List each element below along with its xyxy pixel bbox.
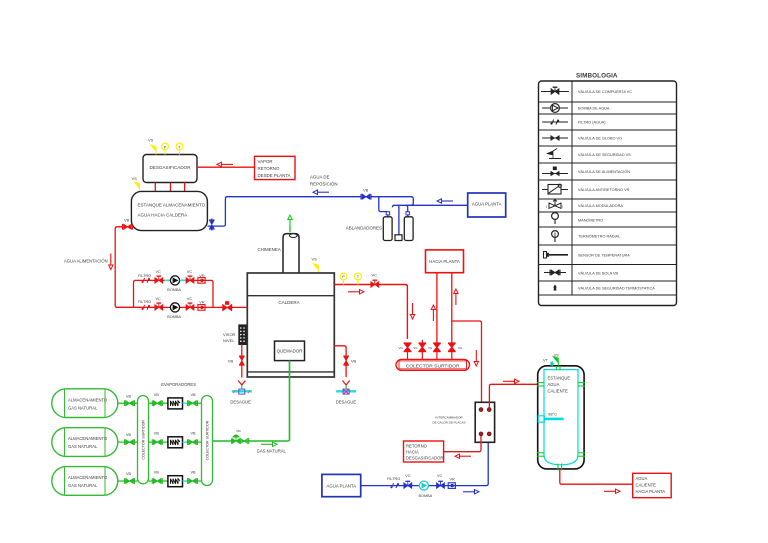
wire branch to left softener [379, 197, 388, 217]
arrow up riser4 [454, 289, 458, 305]
svg-text:VR: VR [199, 301, 205, 305]
svg-text:VS: VS [312, 256, 318, 261]
svg-text:AGUA ALIMENTACIÓN: AGUA ALIMENTACIÓN [64, 258, 108, 263]
nozzle right upper (green) [578, 383, 586, 386]
svg-text:VS: VS [148, 138, 154, 143]
vessel ESTANQUE AGUA CALIENTE outer [538, 366, 584, 469]
legend symbol row1 gate valve [541, 87, 569, 94]
svg-text:AGUA PLANTA: AGUA PLANTA [327, 484, 357, 489]
svg-text:FILTRO: FILTRO [387, 477, 400, 481]
svg-text:GAS NATURAL: GAS NATURAL [68, 405, 98, 410]
safety valve VS flag (boiler) [313, 264, 318, 274]
nozzle bottom (green ticks) [558, 464, 562, 471]
wire valve4 riser to HACIA PLANTA [451, 273, 453, 343]
vessel COLECTOR SURTIDOR (steam) [396, 359, 470, 370]
svg-text:VC: VC [187, 270, 193, 274]
svg-text:BOMBA DE AGUA: BOMBA DE AGUA [578, 107, 610, 111]
svg-text:ABLANDADORES: ABLANDADORES [346, 226, 382, 231]
vessel ESTANQUE ALMACENAMIENTO [131, 191, 207, 230]
svg-text:FILTRO (AGUA): FILTRO (AGUA) [578, 121, 606, 125]
svg-text:DE CALOR DE PLACAS: DE CALOR DE PLACAS [432, 421, 465, 425]
svg-text:VÁLVULA ANTIRETORNO VR: VÁLVULA ANTIRETORNO VR [578, 188, 630, 192]
wire gas line burner down [289, 361, 291, 441]
svg-text:VC: VC [405, 474, 411, 478]
svg-text:CALIENTE: CALIENTE [548, 388, 569, 393]
svg-text:GAS NATURAL: GAS NATURAL [68, 444, 98, 449]
wire HX condensate return [444, 436, 481, 452]
chimney CHIMENEA [283, 234, 299, 274]
gate valve VC city2 [437, 481, 445, 488]
gate valve VC lower2 [186, 303, 194, 310]
wire valve3 riser to HACIA PLANTA [436, 273, 438, 343]
wire make-up water from right into tank [208, 197, 362, 231]
svg-text:98°C: 98°C [548, 411, 557, 416]
wire valve2 stub and to collector [421, 352, 423, 360]
svg-text:GAS NATURAL: GAS NATURAL [257, 448, 287, 453]
svg-text:INTERCAMBIADOR: INTERCAMBIADOR [435, 416, 463, 420]
ball valve VB make-up (blue) [361, 194, 371, 200]
vessel gas tank 1 [52, 389, 118, 418]
nozzle right lower (green) [578, 453, 586, 456]
svg-text:ALMACENAMIENTO: ALMACENAMIENTO [68, 475, 108, 480]
legend symbol row3 filter [542, 120, 568, 125]
svg-text:VG: VG [413, 346, 418, 350]
svg-text:CALIENTE: CALIENTE [636, 483, 657, 488]
svg-text:DESGASIFICADOR: DESGASIFICADOR [406, 456, 443, 461]
wire from AGUA PLANTA to softeners [406, 204, 468, 206]
wires tanks to left collector [118, 403, 138, 481]
evaporator 3 [168, 476, 183, 487]
svg-text:VÁLVULA DE ALIMENTACIÓN: VÁLVULA DE ALIMENTACIÓN [578, 169, 630, 174]
svg-text:VG: VG [458, 346, 463, 350]
svg-text:DESAGUE: DESAGUE [230, 399, 251, 404]
heat exchanger INTERCAMBIADOR [475, 402, 494, 442]
gate valve VC lower1 [155, 303, 163, 310]
svg-text:SIMBOLOGIA: SIMBOLOGIA [576, 73, 618, 80]
svg-text:VC: VC [187, 297, 193, 301]
arrow right hot water [604, 489, 620, 493]
wire visor to drain [241, 345, 243, 378]
svg-text:VISOR: VISOR [223, 332, 236, 337]
boiler top divider [247, 295, 334, 297]
nozzle left lower (green) [537, 453, 545, 456]
svg-text:COLECTOR SURTIDOR: COLECTOR SURTIDOR [142, 420, 146, 460]
arrow left on softener feed [437, 199, 453, 203]
wire make-up to softeners loop [371, 197, 413, 206]
cyan stub evap2 [183, 441, 187, 443]
wire loop to right softener [392, 205, 407, 235]
arrow up riser3 [431, 305, 435, 321]
svg-text:GAS NATURAL: GAS NATURAL [68, 483, 98, 488]
arrow down to HX [474, 350, 478, 366]
svg-text:BOMBA: BOMBA [167, 315, 181, 319]
HX port 4 [487, 432, 491, 436]
svg-text:VM: VM [236, 429, 241, 433]
svg-text:VG: VG [428, 346, 433, 350]
arrow right steam flow [348, 290, 364, 294]
svg-text:VR: VR [450, 478, 456, 482]
svg-text:VT: VT [543, 359, 549, 363]
svg-text:TERMÓMETRO RADIAL: TERMÓMETRO RADIAL [578, 234, 620, 239]
svg-text:BOMBA: BOMBA [419, 494, 433, 498]
arrow down feed water [109, 254, 113, 270]
cyan stub evap3 [183, 480, 187, 482]
svg-text:COLECTOR SURTIDOR: COLECTOR SURTIDOR [206, 420, 210, 460]
ball valve VB left drain (red, vertical) [239, 356, 245, 365]
manometer P (steam) [340, 273, 347, 284]
legend symbol row13 thermostatic safety valve [553, 285, 557, 291]
legend symbol row12 ball valve [544, 270, 566, 276]
globe valve VG 4 on collector [448, 343, 456, 351]
feed valve (valvula de alimentacion) [223, 301, 232, 311]
arrow up flue gas (green) [288, 215, 292, 232]
wires deaerator to tank (3 risers) [155, 183, 184, 192]
inner cyan shell [544, 370, 578, 465]
globe valve VG 3 on collector [433, 343, 441, 351]
drain funnel left DESAGUE [232, 381, 252, 395]
wire cyan discharge stub (upper) [180, 279, 186, 281]
drain funnel right DESAGUE [336, 381, 356, 395]
svg-text:ESTANQUE ALMACENAMIENTO: ESTANQUE ALMACENAMIENTO [138, 202, 206, 207]
wires evaporators to right collector [187, 403, 202, 481]
svg-text:EVAPORADORES: EVAPORADORES [161, 382, 196, 387]
safety valve VS flag (hot tank, green) [553, 357, 558, 367]
filter (city) [390, 483, 399, 488]
filter (upper) [141, 278, 150, 283]
thermostatic valve VT (cyan) [551, 361, 555, 366]
wire steam return to deaerator [197, 166, 255, 168]
arrow right gas flow [261, 442, 277, 446]
svg-text:VS: VS [132, 176, 138, 181]
svg-text:VÁLVULA DE SEGURIDAD TERMOSTAT: VÁLVULA DE SEGURIDAD TERMOSTATICA [578, 287, 655, 291]
svg-text:VB: VB [363, 188, 369, 193]
arrow left condensate [455, 454, 471, 458]
svg-text:VC: VC [372, 273, 378, 278]
wire hot water to plant [560, 469, 633, 484]
svg-text:VAPOR: VAPOR [258, 159, 273, 164]
svg-text:SENSOR DE TEMPERATURA: SENSOR DE TEMPERATURA [578, 254, 630, 258]
svg-text:VB: VB [126, 433, 132, 437]
svg-text:VB: VB [126, 394, 132, 398]
legend symbol row11 temperature sensor [544, 252, 569, 259]
svg-text:VC: VC [156, 297, 162, 301]
svg-text:VB: VB [191, 393, 197, 397]
svg-text:VB: VB [228, 358, 234, 363]
temperature sensor (cyan) [538, 416, 563, 422]
svg-text:VG: VG [399, 346, 404, 350]
legend symbol row9 manometer [552, 213, 559, 224]
thermometer T (steam) [355, 273, 362, 284]
thermometer T (deaerator) [176, 143, 183, 154]
vessel softener 1 [383, 217, 392, 241]
box VAPOR RETORNO DESDE PLANTA [255, 156, 296, 179]
legend symbol row6 feed valve [542, 167, 568, 177]
arrow left on make-up line [313, 190, 329, 194]
legend symbol row8 modulating valve [546, 200, 563, 210]
svg-text:FILTRO: FILTRO [138, 274, 151, 278]
cyan stub evap1 [183, 402, 187, 404]
wire valve1 to collector [407, 352, 409, 360]
svg-text:HACIA: HACIA [406, 450, 419, 455]
svg-text:VÁLVULA MODULADORA: VÁLVULA MODULADORA [578, 204, 623, 208]
legend symbol row10 thermometer [552, 231, 559, 242]
gate valve VC city1 [404, 481, 412, 488]
svg-text:VÁLVULA DE COMPUERTA VC: VÁLVULA DE COMPUERTA VC [578, 90, 632, 94]
burner QUEMADOR [275, 341, 305, 361]
HX port 3 [479, 432, 483, 436]
gate valve VC upper1 [155, 276, 163, 283]
nozzle left upper (green) [537, 383, 545, 386]
svg-text:DESGASIFICADOR: DESGASIFICADOR [149, 165, 191, 170]
vessel COLECTOR SURTIDOR right (gas) [202, 396, 213, 486]
wire branch to heat exchanger [452, 321, 482, 407]
vessel COLECTOR SURTIDOR left (gas) [138, 396, 149, 484]
svg-text:AGUA HACIA CALDERA: AGUA HACIA CALDERA [138, 212, 188, 217]
box AGUA CALIENTE HACIA PLANTA [633, 473, 672, 497]
svg-text:BOMBA: BOMBA [167, 288, 181, 292]
box AGUA PLANTA (bottom) [322, 474, 361, 496]
pump BOMBA (lower) [170, 303, 179, 312]
svg-text:RETORNO: RETORNO [406, 444, 428, 449]
vessel gas tank 2 [52, 428, 118, 457]
svg-text:ESTANQUE: ESTANQUE [548, 375, 571, 380]
svg-text:VB: VB [154, 471, 160, 475]
vessel softener 2 [404, 217, 413, 241]
pump BOMBA (city, cyan) [419, 481, 428, 490]
fitting left softener [386, 212, 389, 215]
arrow right city water flow [463, 490, 479, 494]
safety valve VS flag (tank) [134, 182, 139, 192]
svg-text:HACIA PLANTA: HACIA PLANTA [429, 259, 460, 264]
legend outer border [539, 81, 677, 306]
svg-text:QUEMADOR: QUEMADOR [277, 349, 303, 354]
legend symbol row5 safety valve flag [547, 149, 561, 159]
check valve VR upper [198, 278, 205, 284]
svg-text:HACIA PLANTA: HACIA PLANTA [636, 489, 666, 494]
svg-text:VÁLVULA DE BOLA VB: VÁLVULA DE BOLA VB [578, 272, 618, 276]
boiler bottom band [247, 371, 334, 373]
vessel brine tank [395, 235, 402, 241]
HX port 2 [487, 408, 491, 412]
svg-text:AGUA PLANTA: AGUA PLANTA [472, 201, 502, 206]
svg-text:DESAGUE: DESAGUE [336, 399, 357, 404]
svg-text:AGUA: AGUA [548, 382, 560, 387]
legend texts [578, 90, 655, 291]
arrow right to tank [503, 379, 519, 383]
ball valve VB tank outlet (red) [123, 224, 133, 230]
HX port 1 [479, 408, 483, 412]
wire upper branch [134, 280, 214, 307]
svg-text:REPOSICIÓN: REPOSICIÓN [310, 181, 338, 186]
svg-text:MANÓMETRO: MANÓMETRO [578, 218, 603, 223]
manometer P (deaerator) [162, 143, 169, 154]
svg-text:NIVEL: NIVEL [223, 338, 235, 343]
svg-text:AGUA: AGUA [636, 476, 648, 481]
vessel DESGASIFICADOR [143, 155, 197, 183]
svg-text:AGUA DE: AGUA DE [310, 174, 330, 179]
svg-text:I: I [562, 205, 563, 209]
nozzle top (green ticks into tank) [556, 366, 560, 371]
legend column divider [571, 81, 573, 295]
level glass VISOR NIVEL [239, 325, 246, 345]
arrow down into valve1 [410, 303, 414, 319]
vessel gas tank 3 [52, 467, 118, 496]
gate valve VC steam [371, 280, 379, 287]
wire HX hot out to tank [489, 384, 539, 407]
wire boiler right blowdown [334, 346, 346, 377]
svg-text:VB: VB [351, 358, 357, 363]
gate valve VC upper2 [186, 276, 194, 283]
box RETORNO HACIA DESGASIFICADOR [404, 441, 444, 462]
modulating gas valve assembly [232, 435, 249, 444]
wire lower feed header [116, 306, 248, 308]
svg-text:VB: VB [191, 432, 197, 436]
svg-text:ALMACENAMIENTO: ALMACENAMIENTO [68, 436, 108, 441]
svg-text:VB: VB [154, 432, 160, 436]
legend symbol row7 check valve VR [542, 184, 568, 194]
svg-text:VC: VC [437, 474, 443, 478]
arrow left on steam return [217, 162, 233, 166]
svg-text:ALMACENAMIENTO: ALMACENAMIENTO [68, 397, 108, 402]
box HACIA PLANTA [426, 250, 464, 273]
svg-text:RETORNO: RETORNO [258, 166, 280, 171]
wire tank outlet down to feed header [115, 227, 142, 308]
svg-text:VB: VB [124, 218, 130, 223]
boiler CALDERA body [247, 273, 334, 377]
legend row lines [539, 102, 677, 295]
svg-text:I: I [546, 205, 547, 209]
svg-text:DESDE PLANTA: DESDE PLANTA [258, 173, 291, 178]
wires left collector to evaporators [149, 403, 168, 481]
svg-text:CHIMENEA: CHIMENEA [258, 247, 281, 252]
legend symbol row2 pump [542, 104, 568, 113]
svg-text:VÁLVULA DE GLOBO VG: VÁLVULA DE GLOBO VG [578, 137, 622, 141]
ball valve VB right drain (red, vertical) [343, 356, 349, 365]
evaporator 2 [168, 437, 183, 448]
wire city water to HX [361, 436, 489, 486]
svg-text:COLECTOR SURTIDOR: COLECTOR SURTIDOR [406, 364, 460, 370]
ball valve VB tank right (blue) [209, 220, 215, 229]
check valve VR lower [198, 305, 205, 311]
pump BOMBA (upper) [170, 276, 179, 285]
svg-text:VB: VB [126, 472, 132, 476]
evaporator 1 [168, 398, 183, 409]
wire gas supply to burner [213, 361, 290, 441]
globe valve VG 1 on collector [404, 343, 412, 351]
svg-text:VÁLVULA DE SEGURIDAD VS: VÁLVULA DE SEGURIDAD VS [578, 153, 631, 157]
globe valve VG 2 on collector [419, 343, 427, 351]
box AGUA PLANTA (top) [468, 193, 506, 217]
svg-text:VB: VB [154, 393, 160, 397]
legend symbol row4 globe valve [542, 135, 568, 141]
svg-text:VC: VC [156, 270, 162, 274]
svg-text:FILTRO: FILTRO [138, 300, 151, 304]
svg-text:CALDERA: CALDERA [278, 300, 299, 305]
wire cyan suction stub (upper) [165, 279, 171, 281]
wire main steam line [334, 285, 407, 340]
filter (lower) [141, 305, 150, 310]
safety valve VS flag (deaerator) [151, 145, 156, 155]
check valve VR city [448, 483, 455, 489]
fitting right softener [406, 212, 409, 215]
svg-text:VB: VB [191, 471, 197, 475]
